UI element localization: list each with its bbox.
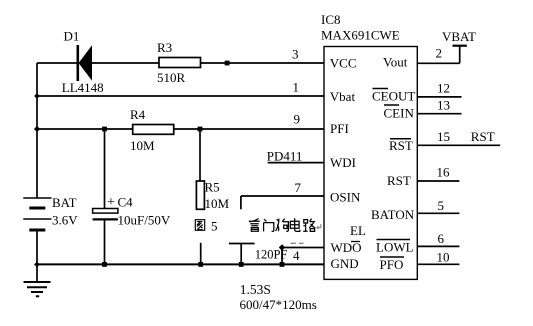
pin label CEOUT (overline CE) (372, 89, 415, 104)
pin label RST-bar (389, 138, 413, 153)
svg-text:5: 5 (438, 198, 445, 213)
wire PFI net left segment (37, 128, 133, 130)
svg-text:510R: 510R (157, 70, 186, 85)
svg-text:10M: 10M (130, 138, 155, 153)
svg-text:OSIN: OSIN (330, 190, 361, 205)
svg-text:PD411: PD411 (267, 148, 303, 163)
label tu-5 (Chinese: figure 5) (195, 220, 204, 231)
wire pin2 Vout to VBAT terminal (417, 46, 467, 64)
svg-text:VCC: VCC (330, 56, 357, 71)
junction bus/C4 (102, 262, 107, 267)
wire WDO pin4 (282, 248, 324, 265)
wire pin10 (417, 263, 459, 265)
svg-text:10uF/50V: 10uF/50V (118, 213, 171, 228)
junction at rail/Vbat (34, 93, 40, 99)
svg-text:LL4148: LL4148 (62, 80, 104, 95)
svg-text:1.53S: 1.53S (240, 282, 271, 297)
junction bus/WDO (280, 262, 285, 267)
gou (276, 219, 289, 232)
svg-text:BAT: BAT (52, 195, 77, 210)
junction bus/battery (34, 262, 40, 268)
svg-text:PFO: PFO (380, 257, 404, 272)
svg-text:13: 13 (437, 98, 450, 113)
svg-text:4: 4 (293, 248, 300, 263)
svg-text:Vbat: Vbat (330, 89, 356, 104)
junction bus/R5 (198, 262, 203, 267)
svg-text:CEIN: CEIN (384, 106, 415, 121)
svg-text:MAX691CWE: MAX691CWE (321, 28, 400, 43)
svg-text:6: 6 (438, 231, 445, 246)
wire Vbat net (pin1 row) (37, 95, 324, 97)
svg-text:LOWL: LOWL (376, 240, 414, 255)
svg-text:10M: 10M (205, 196, 230, 211)
resistor R3 (159, 58, 201, 68)
junction C4 branch on PFI wire (102, 127, 107, 132)
pin label CEIN (overline CE) (384, 105, 415, 121)
svg-text:3: 3 (292, 47, 299, 62)
svg-text:IC8: IC8 (321, 12, 341, 27)
wire pin5 (417, 212, 459, 214)
op IC8 chip body U=MAX691CWE (324, 47, 417, 280)
wire pin13 (417, 113, 461, 115)
wire pin16 (417, 180, 459, 182)
svg-text:BATON: BATON (371, 207, 415, 222)
svg-text:WDO: WDO (331, 240, 362, 255)
junction R5 branch on PFI wire (198, 127, 203, 132)
svg-text:WDI: WDI (330, 155, 356, 170)
svg-text:16: 16 (437, 165, 451, 180)
pin label PFO (overline) (380, 257, 405, 272)
wire R3 to pin3 VCC (201, 62, 325, 64)
junction WDO corner (279, 244, 285, 251)
svg-text:RST: RST (389, 138, 413, 153)
svg-text:R5: R5 (205, 180, 220, 195)
svg-text:GND: GND (331, 256, 359, 271)
diode D1 (78, 45, 159, 81)
junction on VCC wire (225, 61, 230, 66)
battery BAT (23, 198, 51, 264)
gray artifact dashes above pin4 (291, 242, 304, 244)
wire left vertical rail x=37 (36, 63, 38, 198)
pin label WDO (overline on O) (331, 240, 362, 255)
ground bus wire (37, 263, 324, 265)
svg-text:EL: EL (350, 223, 366, 238)
pin label LOWL (overline) (376, 240, 414, 255)
svg-text:RST: RST (471, 129, 495, 144)
svg-text:2: 2 (436, 46, 443, 61)
lu (303, 219, 315, 232)
svg-text:PFI: PFI (330, 121, 349, 136)
svg-text:15: 15 (437, 129, 450, 144)
svg-text:5: 5 (211, 219, 218, 234)
wire pin15 RST out (417, 144, 500, 146)
dian (290, 218, 300, 231)
wire R4 to pin9 PFI (174, 128, 324, 130)
svg-text:+: + (107, 195, 115, 210)
svg-text:10: 10 (437, 250, 450, 265)
svg-text:RST: RST (387, 173, 411, 188)
svg-text:VBAT: VBAT (442, 29, 476, 44)
svg-text:7: 7 (295, 180, 302, 195)
svg-text:12: 12 (437, 81, 450, 96)
svg-text:D1: D1 (64, 29, 80, 44)
wire OSIN pin7 (241, 196, 324, 209)
wire top-left corner to diode (net VCC-in) (37, 62, 78, 64)
svg-text:C4: C4 (118, 195, 134, 210)
junction bus/120PF (239, 262, 244, 267)
wire pin12 (417, 96, 461, 98)
svg-text:9: 9 (294, 112, 301, 127)
svg-text:1: 1 (293, 80, 300, 95)
svg-text:600/47*120ms: 600/47*120ms (240, 297, 317, 312)
capacitor C4 (93, 129, 118, 264)
wire pin6 (417, 245, 459, 247)
capacitor 120PF (229, 244, 255, 265)
wire WDI stub with PD411 (268, 162, 324, 164)
kan (249, 219, 260, 232)
junction at rail/PFI (34, 126, 40, 132)
svg-text:R4: R4 (130, 107, 146, 122)
ground (24, 264, 51, 296)
resistor R5 (196, 129, 204, 264)
men (264, 219, 274, 231)
resistor R4 (133, 125, 174, 135)
svg-text:CEOUT: CEOUT (372, 89, 415, 104)
svg-text:Vout: Vout (383, 55, 408, 70)
svg-text:R3: R3 (157, 40, 172, 55)
label kan-men-gou-dian-lu (Chinese: watchdog circuit) (249, 218, 316, 231)
svg-text:3.6V: 3.6V (52, 213, 78, 228)
label return mark (gray) (317, 224, 321, 229)
